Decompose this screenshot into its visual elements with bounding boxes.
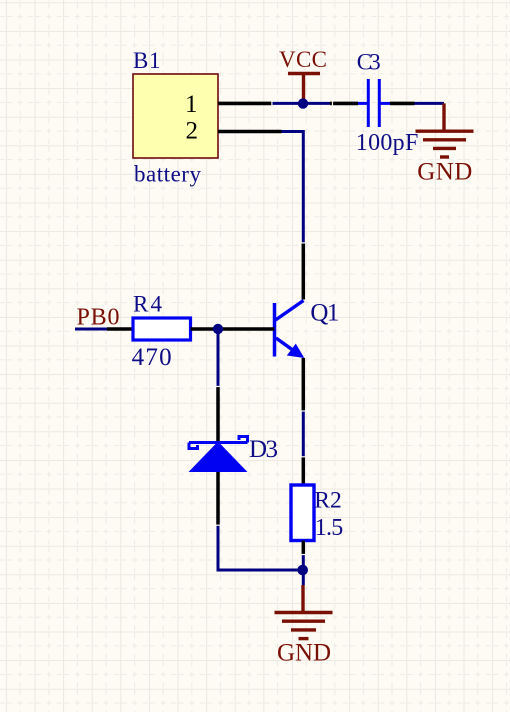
svg-text:B1: B1	[133, 48, 161, 73]
pin left of C3	[330, 102, 358, 106]
wire emitter to R2	[302, 411, 305, 457]
D3 triangle	[189, 442, 248, 473]
svg-text:470: 470	[132, 344, 172, 371]
wire R2 to ground node	[302, 555, 305, 586]
wire pin2 to collector	[282, 132, 304, 244]
ground GND top	[416, 103, 474, 157]
svg-text:100pF: 100pF	[356, 130, 419, 156]
svg-text:Q1: Q1	[310, 300, 339, 327]
battery B1 body	[133, 74, 218, 158]
transistor Q1	[275, 301, 304, 357]
wire PB0 stub	[75, 328, 107, 331]
svg-text:GND: GND	[417, 159, 472, 186]
emitter arrow of Q1	[287, 344, 305, 358]
svg-text:battery: battery	[134, 162, 202, 187]
power port VCC	[288, 74, 320, 102]
wire D3 to ground node	[218, 525, 303, 570]
wire pin1 to C3	[272, 102, 330, 105]
junction at ground node	[297, 565, 308, 576]
collector pin of Q1	[302, 243, 306, 300]
wire C3 to GND corner	[415, 102, 445, 105]
pin 2 of B1	[218, 130, 282, 134]
pin right of R4 / base wire	[191, 327, 275, 331]
ground GND bottom	[275, 585, 333, 639]
junction at base node	[213, 324, 223, 334]
pin top of D3	[216, 387, 220, 442]
svg-text:C3: C3	[357, 50, 381, 75]
svg-text:1: 1	[185, 91, 198, 118]
svg-text:PB0: PB0	[77, 305, 120, 331]
svg-text:D3: D3	[249, 436, 278, 463]
svg-text:VCC: VCC	[279, 47, 327, 72]
wire junction gap marks	[216, 101, 333, 555]
junction at VCC node	[298, 98, 308, 108]
svg-text:R4: R4	[133, 292, 163, 317]
pin 1 of B1	[218, 102, 272, 106]
resistor R4 body	[133, 318, 191, 340]
pin right of C3	[390, 102, 415, 106]
svg-text:GND: GND	[277, 640, 331, 667]
wire base node down to D3	[217, 329, 220, 387]
capacitor C3	[358, 79, 390, 127]
pin bottom of D3	[216, 472, 220, 525]
pin top of R2	[302, 457, 306, 485]
emitter pin of Q1	[302, 358, 306, 411]
resistor R2 body	[291, 485, 314, 541]
pin left of R4	[107, 327, 133, 331]
svg-text:1.5: 1.5	[315, 515, 344, 541]
zener diode D3	[189, 437, 248, 449]
pin bottom of R2	[302, 541, 306, 555]
svg-text:2: 2	[186, 118, 199, 145]
svg-text:R2: R2	[314, 487, 342, 513]
